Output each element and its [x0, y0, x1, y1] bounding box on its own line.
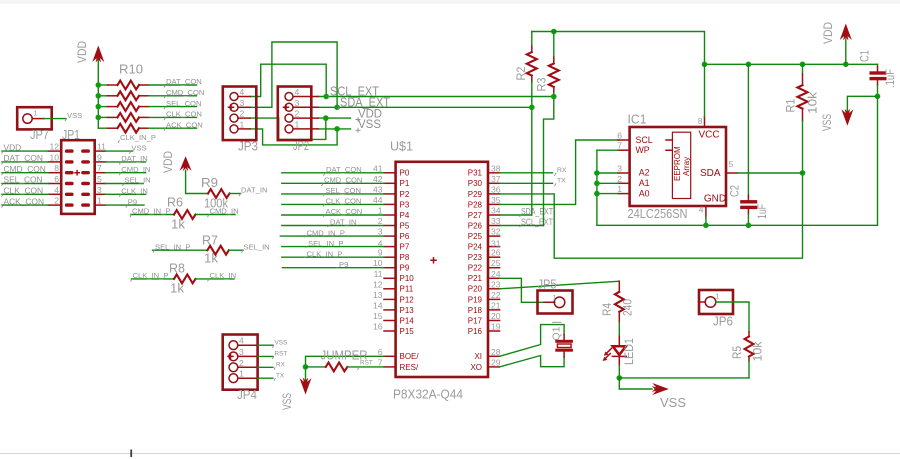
svg-text:14: 14	[373, 300, 383, 310]
resistor R10-5	[98, 124, 196, 133]
svg-text:1k: 1k	[171, 218, 186, 232]
resistor R5 10k	[732, 332, 765, 378]
wire JP4-3 RST	[258, 355, 273, 357]
wire P29 to SDA node	[500, 173, 803, 258]
svg-text:GND: GND	[704, 194, 726, 205]
wire JP3-2 to VDD rail (under JP2)	[250, 118, 326, 139]
wire WP/A2/A1/A0 to VSS net	[597, 149, 618, 151]
svg-text:28: 28	[491, 347, 501, 357]
svg-text:VSS: VSS	[131, 143, 146, 152]
wire P2 SEL_CON	[282, 193, 384, 195]
wire JP1-5 SEL_IN	[105, 183, 143, 185]
svg-text:24: 24	[491, 269, 501, 279]
svg-text:8: 8	[698, 116, 703, 126]
connector JP6	[699, 290, 733, 329]
wire JP1-9 DAT_IN	[105, 161, 145, 163]
svg-text:P24: P24	[468, 243, 483, 252]
junction dots on VDD feed	[96, 82, 102, 88]
svg-text:P23: P23	[468, 253, 483, 262]
U$1 right pin numbers	[491, 163, 501, 367]
node CMD_IN_P	[130, 207, 170, 217]
wire JP1-2 ACK_CON	[2, 204, 49, 206]
IC U$1 P8X32A-Q44	[390, 139, 488, 402]
wire JP1-4 CLK_CON	[2, 193, 49, 195]
svg-text:23: 23	[491, 279, 501, 289]
wire JP1-6 SEL_CON	[2, 183, 49, 185]
junction R3 bottom on SCL_EXT	[551, 94, 557, 100]
wire P28 to IC1 SCL	[500, 140, 618, 204]
svg-text:P9: P9	[128, 197, 137, 206]
svg-text:P1: P1	[400, 179, 410, 188]
resistor R7 1k	[153, 234, 244, 266]
svg-text:P25: P25	[468, 232, 483, 241]
wire JP4-1 TX	[258, 377, 273, 379]
wire XO to crystal	[500, 356, 564, 367]
node SCL_EXT (rail label)	[328, 84, 380, 100]
svg-text:VSS: VSS	[275, 339, 288, 346]
svg-text:12: 12	[49, 142, 59, 152]
svg-text:16: 16	[373, 322, 383, 332]
svg-text:P7: P7	[400, 243, 410, 252]
svg-text:RST: RST	[360, 359, 373, 366]
node CLK_CON	[164, 110, 202, 120]
frame top edge	[0, 0, 900, 3]
wire SDA to R1	[738, 172, 803, 174]
wire VSS node to R5	[619, 377, 749, 379]
svg-text:2: 2	[239, 358, 244, 368]
svg-text:P9: P9	[339, 260, 348, 269]
svg-text:CLK_IN_P: CLK_IN_P	[133, 271, 169, 280]
svg-text:CMD_CON: CMD_CON	[4, 164, 46, 174]
svg-text:CMD_CON: CMD_CON	[324, 176, 362, 185]
svg-text:VDD: VDD	[823, 22, 835, 44]
svg-text:P0: P0	[400, 169, 410, 178]
svg-text:24LC256SN: 24LC256SN	[628, 206, 688, 221]
svg-text:DAT_CON: DAT_CON	[326, 165, 362, 174]
wire JP2-4 SCL_EXT rail	[318, 96, 554, 98]
wire VDD bus (right)	[705, 63, 878, 65]
svg-text:P11: P11	[400, 285, 414, 294]
svg-text:R10: R10	[119, 62, 143, 77]
svg-text:SEL_CON: SEL_CON	[4, 175, 43, 185]
svg-text:P13: P13	[400, 306, 415, 315]
svg-text:CMD_IN: CMD_IN	[210, 207, 239, 216]
svg-text:3: 3	[97, 185, 102, 195]
connector JP7	[17, 107, 52, 142]
resistor R4 240	[602, 281, 635, 336]
svg-text:2: 2	[378, 216, 383, 226]
svg-text:7: 7	[378, 357, 383, 367]
svg-text:P31: P31	[468, 169, 483, 178]
IC1 24LC256SN	[628, 112, 727, 222]
svg-text:P17: P17	[468, 316, 483, 325]
wire P30 TX	[500, 182, 553, 184]
svg-text:43: 43	[373, 184, 383, 194]
svg-text:P16: P16	[468, 327, 483, 336]
svg-text:R1: R1	[786, 99, 798, 113]
svg-text:11: 11	[97, 142, 106, 152]
junction R3 top	[551, 29, 557, 35]
svg-text:SCL_EXT: SCL_EXT	[521, 217, 553, 227]
svg-text:ACK_CON: ACK_CON	[326, 207, 363, 216]
node CLK_IN	[208, 271, 237, 281]
wire VSS net vertical (right)	[877, 96, 879, 225]
svg-text:29: 29	[491, 357, 501, 367]
svg-text:TX: TX	[276, 372, 285, 379]
svg-text:P12: P12	[400, 295, 415, 304]
node SEL_CON	[164, 99, 201, 109]
svg-text:RX: RX	[557, 167, 567, 174]
svg-text:2: 2	[240, 109, 245, 119]
resistor R10-3	[98, 102, 196, 111]
svg-text:A1: A1	[639, 178, 650, 188]
svg-text:P15: P15	[400, 327, 415, 336]
svg-text:DAT_IN: DAT_IN	[241, 186, 267, 195]
svg-text:22: 22	[491, 290, 501, 300]
svg-text:JP5: JP5	[538, 276, 557, 291]
svg-text:CMD_CON: CMD_CON	[166, 88, 204, 97]
svg-text:4: 4	[295, 87, 300, 97]
IC1 SDA pin stub	[726, 172, 738, 174]
svg-text:19: 19	[491, 322, 501, 332]
svg-text:DAT_CON: DAT_CON	[4, 153, 43, 163]
svg-text:2: 2	[295, 109, 300, 119]
svg-text:SEL_IN: SEL_IN	[244, 242, 270, 251]
svg-text:P28: P28	[468, 200, 483, 209]
svg-text:1k: 1k	[204, 252, 219, 266]
svg-text:P5: P5	[400, 221, 410, 230]
frame bottom tick	[130, 450, 132, 458]
frame bottom rule	[0, 453, 900, 455]
svg-text:R4: R4	[602, 302, 614, 316]
resistor R10-1	[98, 81, 196, 90]
svg-text:3: 3	[239, 347, 244, 357]
wire JP3-1 to VSS rail (below JP2)	[250, 129, 337, 145]
svg-text:1: 1	[295, 119, 300, 129]
svg-text:VCC: VCC	[699, 130, 720, 141]
svg-text:240: 240	[623, 299, 635, 316]
svg-text:CLK_IN: CLK_IN	[210, 271, 237, 280]
svg-text:3: 3	[240, 98, 245, 108]
svg-text:Q1: Q1	[550, 326, 562, 340]
svg-text:P18: P18	[468, 306, 483, 315]
svg-text:P27: P27	[468, 211, 483, 220]
svg-text:R5: R5	[732, 346, 744, 359]
wire VDD arrow to bus	[845, 39, 847, 64]
wire P26 SCL_EXT	[500, 225, 544, 227]
svg-text:1: 1	[34, 109, 38, 118]
supply VSS (top right, down arrow)	[822, 96, 878, 131]
svg-text:1: 1	[378, 206, 383, 216]
svg-text:9: 9	[97, 152, 102, 162]
svg-text:JP6: JP6	[713, 314, 733, 329]
node SDA_EXT (rail label)	[338, 95, 391, 110]
svg-text:JP3: JP3	[238, 139, 258, 154]
node VSS (rail label)	[356, 119, 382, 133]
svg-text:1: 1	[716, 292, 720, 301]
svg-text:P3: P3	[400, 200, 410, 209]
svg-text:CLK_CON: CLK_CON	[326, 197, 362, 206]
wire GND to VSS net	[705, 217, 707, 225]
wire P9	[282, 267, 384, 269]
svg-text:EEPROM: EEPROM	[673, 146, 682, 181]
svg-text:P29: P29	[468, 190, 483, 199]
node ACK_CON	[164, 120, 203, 130]
svg-text:Array: Array	[682, 157, 691, 176]
wire JP2-2 VDD rail	[318, 117, 351, 119]
IC1 VCC pin stub	[704, 117, 706, 127]
svg-text:VDD: VDD	[4, 142, 22, 152]
svg-text:VSS: VSS	[822, 114, 834, 131]
svg-text:P2: P2	[400, 190, 410, 199]
svg-text:36: 36	[491, 184, 501, 194]
wire JP4-2 RX	[258, 366, 273, 368]
svg-text:P4: P4	[400, 211, 410, 220]
svg-text:35: 35	[491, 195, 501, 205]
svg-text:TX: TX	[557, 178, 566, 185]
IC1 pin numbers	[617, 116, 733, 215]
U$1 right pin stubs	[488, 173, 500, 367]
svg-text:4: 4	[699, 205, 704, 215]
wire JP1-8 CMD_CON	[2, 172, 49, 174]
svg-text:LED1: LED1	[624, 338, 636, 365]
svg-text:SEL_CON: SEL_CON	[166, 99, 201, 108]
wire SDA_EXT vertical (R2 to P27)	[531, 107, 533, 215]
node CLK_IN_P (stray label)	[118, 133, 156, 143]
wire P8 CLK_IN_P	[282, 256, 384, 258]
svg-text:P20: P20	[468, 285, 483, 294]
svg-text:1: 1	[240, 119, 245, 129]
wire P0 DAT_CON	[282, 172, 384, 174]
wire JP1-7 CMD_IN	[105, 172, 145, 174]
svg-text:10k: 10k	[808, 92, 820, 114]
wire P7 SEL_IN_P	[282, 246, 384, 248]
svg-text:VSS: VSS	[660, 395, 686, 410]
svg-text:JP4: JP4	[237, 387, 257, 402]
wire JP6 to R5	[716, 302, 749, 332]
resistor R10-4	[98, 113, 196, 122]
resistor R2	[516, 32, 537, 108]
svg-text:7: 7	[617, 141, 622, 151]
svg-text:RST: RST	[275, 351, 288, 358]
svg-text:RES/: RES/	[400, 363, 419, 372]
svg-text:44: 44	[373, 195, 383, 205]
svg-text:25: 25	[491, 258, 501, 268]
svg-text:U$1: U$1	[390, 139, 413, 154]
svg-text:CLK_IN: CLK_IN	[121, 187, 148, 196]
svg-text:JP1: JP1	[62, 127, 80, 142]
wire BOE/ to VSS	[306, 356, 385, 381]
wire P6 CMD_IN_P	[280, 235, 384, 237]
svg-text:CLK_IN_P: CLK_IN_P	[307, 249, 343, 258]
svg-text:ACK_CON: ACK_CON	[166, 120, 203, 129]
svg-text:CLK_CON: CLK_CON	[166, 110, 202, 119]
svg-text:P21: P21	[468, 274, 483, 283]
IC1 left pin stubs	[618, 140, 630, 194]
junction SDA node	[800, 170, 806, 176]
JP1 left pin stubs	[49, 151, 62, 205]
svg-text:1uF: 1uF	[757, 204, 769, 219]
svg-text:8: 8	[54, 163, 59, 173]
resistor R3	[537, 32, 559, 97]
wire VCC to VDD bus	[704, 64, 706, 117]
wire P1 CMD_CON	[282, 182, 384, 184]
wire VDD to R9	[186, 171, 208, 194]
svg-text:1: 1	[553, 293, 557, 302]
svg-text:IC1: IC1	[628, 112, 647, 127]
svg-text:CMD_IN_P: CMD_IN_P	[307, 228, 345, 237]
svg-text:R9: R9	[201, 176, 218, 190]
svg-text:3: 3	[378, 227, 383, 237]
svg-text:CLK_CON: CLK_CON	[4, 186, 44, 196]
svg-text:ACK_CON: ACK_CON	[4, 196, 45, 206]
svg-text:37: 37	[491, 174, 501, 184]
wire XI to crystal	[500, 325, 564, 357]
svg-text:SDA_EXT: SDA_EXT	[340, 95, 390, 110]
svg-text:7: 7	[97, 163, 102, 173]
wire JP2-3 SDA_EXT rail	[318, 106, 532, 108]
resistor R1 10k	[786, 64, 820, 173]
svg-text:38: 38	[491, 163, 501, 173]
wire JP1-11 VSS	[105, 150, 132, 152]
JP1 right pin stubs	[95, 151, 106, 205]
svg-text:SDA: SDA	[700, 168, 721, 179]
svg-text:26: 26	[491, 248, 501, 258]
svg-text:P30: P30	[468, 179, 483, 188]
connector JP4	[223, 335, 258, 403]
svg-text:1: 1	[617, 184, 622, 194]
wire top bus	[532, 32, 705, 65]
capacitor C1 .1uF	[860, 50, 898, 96]
svg-text:SEL_IN_P: SEL_IN_P	[155, 242, 190, 251]
svg-text:P8X32A-Q44: P8X32A-Q44	[393, 387, 463, 402]
svg-text:P6: P6	[400, 232, 410, 241]
svg-text:VDD: VDD	[77, 41, 89, 63]
svg-text:13: 13	[373, 290, 383, 300]
svg-text:5: 5	[97, 174, 102, 184]
svg-text:SDA_EXT: SDA_EXT	[521, 207, 553, 217]
junction rail dots	[323, 94, 329, 100]
svg-text:C2: C2	[730, 185, 742, 197]
svg-text:P19: P19	[468, 295, 483, 304]
wire JP2-1 VSS rail	[318, 128, 351, 130]
svg-text:P14: P14	[400, 316, 415, 325]
JP1 left pin numbers	[49, 142, 59, 206]
svg-text:VSS: VSS	[358, 119, 381, 131]
node VSS (JP7)	[65, 111, 82, 121]
supply VSS (right arrow)	[619, 378, 686, 410]
svg-text:JP7: JP7	[30, 127, 49, 142]
svg-text:10: 10	[49, 152, 59, 162]
node DAT_CON	[164, 77, 202, 87]
node CMD_CON	[164, 88, 204, 98]
wire JP1-10 DAT_CON	[2, 161, 49, 163]
svg-text:42: 42	[373, 174, 383, 184]
supply VDD (near R9)	[163, 151, 192, 173]
wire SCL_EXT jog (R3 to P26)	[544, 97, 554, 226]
connector JP1	[61, 127, 94, 214]
node SEL_IN	[242, 242, 270, 252]
svg-text:A0: A0	[639, 188, 650, 198]
svg-text:6: 6	[378, 347, 383, 357]
svg-text:2: 2	[54, 196, 59, 206]
svg-text:XI: XI	[474, 352, 482, 361]
wire JP4-4 VSS	[258, 344, 273, 346]
svg-text:3: 3	[617, 164, 622, 174]
svg-text:32: 32	[491, 227, 501, 237]
wire P27 SDA_EXT	[500, 214, 532, 216]
svg-text:33: 33	[491, 216, 501, 226]
wire P31 RX	[500, 172, 553, 174]
svg-text:4: 4	[240, 87, 245, 97]
svg-text:9: 9	[378, 248, 383, 258]
svg-text:21: 21	[491, 300, 501, 310]
svg-text:JP2: JP2	[293, 138, 309, 153]
svg-text:4: 4	[54, 185, 59, 195]
wire P4 ACK_CON	[282, 214, 384, 216]
wire JP7 to VSS	[44, 118, 66, 120]
svg-text:1: 1	[239, 369, 244, 379]
connector JP5	[538, 276, 573, 313]
resistor R10-2	[98, 91, 196, 100]
svg-text:1k: 1k	[170, 282, 185, 296]
svg-text:A2: A2	[639, 168, 650, 178]
svg-text:VSS: VSS	[282, 393, 294, 410]
wire JP1-12 VDD	[2, 150, 49, 152]
wire P5 DAT_IN	[282, 225, 384, 227]
svg-text:BOE/: BOE/	[400, 352, 420, 361]
wire LED to VSS node	[618, 366, 620, 378]
svg-text:1: 1	[97, 196, 102, 206]
svg-text:34: 34	[491, 206, 501, 216]
supply VSS (below jumper, down arrow)	[282, 378, 312, 411]
node CMD_IN	[208, 207, 239, 217]
resistor R6 1k	[131, 196, 235, 232]
svg-text:DAT_IN: DAT_IN	[121, 154, 147, 163]
node CLK_IN_P (R8)	[131, 271, 169, 281]
wire JP1-3 CLK_IN	[105, 193, 145, 195]
connector JP3	[223, 87, 258, 154]
junction R2 bottom on SDA_EXT	[529, 105, 535, 111]
node SEL_IN_P	[153, 242, 190, 252]
svg-text:RX: RX	[276, 362, 286, 369]
wire P20 to R4 (diagonal)	[500, 281, 620, 289]
svg-text:DAT_IN: DAT_IN	[330, 218, 356, 227]
svg-text:XO: XO	[470, 363, 482, 372]
wire JP3-4 loop to SCL_EXT	[250, 64, 326, 96]
svg-text:10k: 10k	[753, 341, 765, 361]
resistor R8 1k	[132, 262, 235, 296]
U$1 left pin stubs	[384, 173, 396, 367]
svg-text:.1uF: .1uF	[885, 69, 897, 88]
svg-text:SCL: SCL	[636, 135, 653, 145]
wire P19 to JP5	[500, 278, 555, 302]
svg-text:SEL_IN_P: SEL_IN_P	[308, 239, 343, 248]
IC1 GND pin stub	[705, 206, 707, 217]
crystal Q1	[550, 322, 572, 357]
svg-text:3: 3	[295, 98, 300, 108]
wire JP1-1 P9	[105, 204, 144, 206]
svg-text:P10: P10	[400, 274, 415, 283]
svg-text:4: 4	[239, 336, 244, 346]
svg-text:41: 41	[373, 163, 383, 173]
svg-text:DAT_CON: DAT_CON	[166, 77, 202, 86]
svg-text:P22: P22	[468, 264, 483, 273]
svg-text:11: 11	[374, 269, 383, 279]
resistor JUMPER on RES/	[306, 348, 385, 372]
svg-text:10: 10	[373, 258, 383, 268]
svg-text:6: 6	[54, 174, 59, 184]
